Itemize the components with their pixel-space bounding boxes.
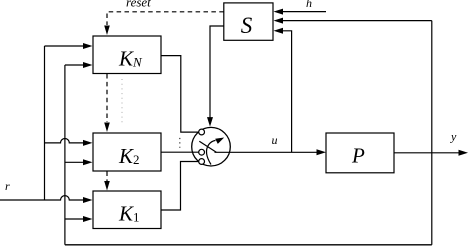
block S (supervisor) (224, 3, 273, 40)
wire to K_2 lower input (65, 161, 83, 163)
arrow into S (u feedback) (274, 28, 284, 34)
svg-text:h: h (306, 0, 312, 10)
switch contact bottom (199, 159, 205, 165)
svg-text:reset: reset (126, 0, 151, 10)
wire bottom feedback rail (65, 244, 432, 246)
arrow into S (y feedback) (274, 18, 284, 24)
block K_2 (93, 133, 161, 171)
arrow y output (459, 150, 469, 156)
arrow into K_N upper input (83, 43, 93, 49)
wire to K_2 upper input (hops feedback rail) (45, 139, 84, 143)
ellipsis dots at switch contacts (179, 138, 181, 148)
svg-text:K2: K2 (118, 144, 140, 168)
arrow into P (317, 149, 327, 155)
wire h input (283, 11, 326, 13)
svg-text:u: u (272, 133, 278, 147)
ellipsis dots between K_N and K_2 (121, 79, 123, 124)
arrow into K_1 upper input (83, 197, 93, 203)
wire K_2 output to switch middle contact (161, 151, 199, 153)
arrow into K_2 lower input (83, 159, 93, 165)
wire K_N output to switch top contact (161, 56, 199, 133)
wire u from switch to P (215, 151, 317, 153)
wire reset (dashed) (107, 12, 224, 25)
svg-text:K1: K1 (118, 202, 140, 226)
block P (process) (326, 133, 394, 173)
wire rail r (vertical) (44, 46, 46, 200)
wire to K_N lower input (65, 64, 83, 66)
svg-text:KN: KN (118, 47, 143, 71)
block K_1 (93, 191, 161, 229)
arrow into switch (switching signal) (207, 117, 213, 127)
switch rotation arrow (curved) (207, 140, 216, 164)
wire to K_1 lower input (65, 218, 83, 220)
arrow into K_2 upper input (83, 140, 93, 146)
svg-text:P: P (351, 144, 365, 168)
wire reset chain K_2 to K_1 (dashed) (106, 172, 108, 182)
wire switching signal S to switch (210, 26, 224, 118)
arrow reset into K_1 (104, 181, 110, 191)
arrow reset into K_N (104, 26, 110, 36)
arrow into K_N lower input (83, 62, 93, 68)
switch contact middle (199, 149, 205, 155)
wire r input (0, 196, 83, 200)
svg-text:y: y (450, 130, 457, 144)
wire reset chain K_N to K_2 (dashed) (106, 74, 108, 122)
arrow reset into K_2 (104, 123, 110, 133)
wire y feedback (vertical right) (431, 21, 433, 245)
wire K_1 output to switch bottom contact (161, 162, 199, 211)
switch contact top (199, 129, 205, 135)
switch rotation arrowhead (215, 138, 224, 144)
wire to K_N upper input (45, 45, 84, 47)
svg-text:S: S (241, 13, 253, 38)
arrow into K_1 lower input (83, 216, 93, 222)
block K_N (93, 36, 161, 74)
arrow into S (h input) (274, 9, 284, 15)
wire u tap to S (283, 31, 292, 153)
switch body circle (192, 127, 231, 166)
wire y feedback into S (283, 20, 432, 22)
switch wiper lever (199, 141, 216, 152)
wire y output of P (394, 152, 459, 154)
svg-text:r: r (5, 179, 10, 193)
wire feedback rail (vertical) (64, 65, 66, 245)
